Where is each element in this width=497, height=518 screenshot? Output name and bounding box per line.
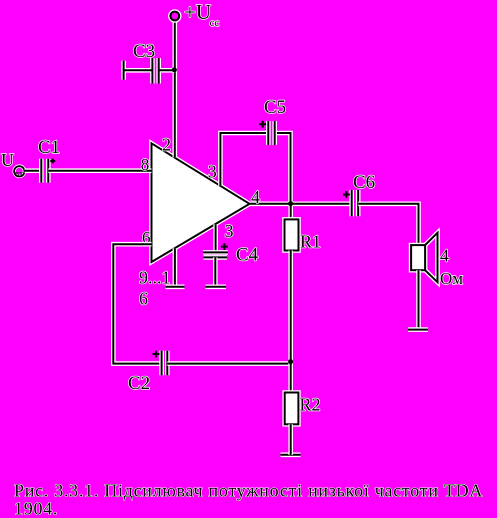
svg-text:Рис. 3.3.1. Підсилювач потужно: Рис. 3.3.1. Підсилювач потужності низько… [14,481,483,501]
polarity + of C6 [343,191,350,198]
svg-text:C4: C4 [236,245,259,266]
wire C2 to node R1/R2 [167,361,290,366]
svg-text:+U: +U [184,0,211,24]
svg-text:C1: C1 [38,137,60,158]
wire pin 6 feedback [113,244,161,363]
polarity + of C5 [259,121,266,128]
svg-text:1904.: 1904. [14,499,58,518]
capacitor C2 [162,351,168,375]
junction dot C3/supply [172,67,177,72]
polarity + of C4 [221,243,228,250]
svg-text:Ом: Ом [440,269,463,288]
svg-text:C6: C6 [353,172,375,193]
terminal +Ucc [170,12,179,21]
op-amp U1 (TDA1904 amplifier triangle) [152,143,250,262]
capacitor C3 [124,58,175,84]
wire C6 to speaker [358,204,418,245]
label 9...16 [139,268,171,309]
wire speaker to ground [416,270,421,329]
resistor R2 [285,393,299,425]
resistor R1 [285,204,299,251]
svg-text:cc: cc [210,17,220,29]
svg-text:4: 4 [440,246,449,266]
junction dot output node [288,201,293,206]
svg-text:3: 3 [225,221,234,241]
wire C1 to pin 8 [48,168,151,173]
ground R2 [281,452,301,457]
label 4 Ом [440,246,463,289]
svg-text:4: 4 [251,187,260,207]
ground speaker [408,327,428,332]
svg-text:2: 2 [162,135,171,155]
junction dot feedback node [288,359,293,364]
polarity + of C1 [50,159,55,164]
svg-text:R2: R2 [300,395,321,415]
wire input terminal to C1 [25,168,42,173]
svg-text:C2: C2 [128,373,150,394]
capacitor C6 [352,190,359,216]
wire R2 to ground [288,424,293,455]
polarity + of C2 [153,351,160,358]
wire R1 to R2 [288,251,293,393]
wire output (pin 4) to C6 [250,202,352,207]
wire pins 9..16 to ground [173,248,178,286]
speaker BA1 [411,233,437,282]
ground C4 [206,284,227,289]
terminal input with subscript вх [14,166,24,178]
svg-text:6: 6 [139,289,148,309]
wire C5 loop (pin 3 to output node) [220,133,290,204]
svg-text:C3: C3 [133,41,155,62]
wire supply vertical from +Ucc terminal to pin 2 [173,21,178,158]
capacitor C5 [268,121,274,145]
ground pins 9..16 [166,284,185,289]
svg-text:C5: C5 [264,97,286,118]
wire pin 3 bottom to C4 [213,224,218,252]
label Uin [1,150,14,170]
svg-text:9...1: 9...1 [139,268,171,288]
capacitor C4 [203,252,228,257]
svg-text:R1: R1 [300,232,321,252]
label +Ucc [184,0,219,29]
wire C4 to ground [213,257,218,286]
svg-text:3: 3 [208,162,217,182]
capacitor C1 [41,159,48,183]
svg-text:8: 8 [141,155,150,174]
svg-text:U: U [1,150,14,170]
